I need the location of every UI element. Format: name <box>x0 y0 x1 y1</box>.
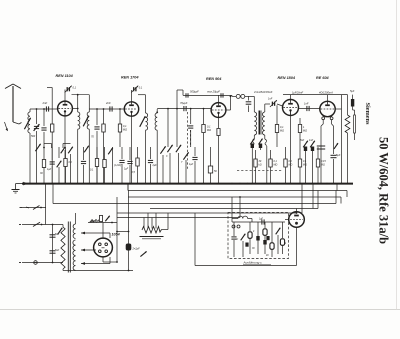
AF xfmr primary tail <box>252 139 254 184</box>
tube V3 REN 904 <box>211 103 226 118</box>
V2 cathode <box>131 116 133 183</box>
mains wire top <box>19 224 63 226</box>
feed x45 down <box>45 184 47 225</box>
IF1 secondary coil <box>87 95 89 184</box>
label Ausfuehrung c <box>243 261 272 265</box>
resistor R5 <box>275 105 284 147</box>
choke top wire <box>347 95 349 115</box>
pot P1 <box>35 144 70 161</box>
tuning cap C2 <box>31 109 39 184</box>
resistor R11 <box>103 147 106 184</box>
V4 top wire <box>283 95 348 100</box>
svg-text:1μF: 1μF <box>47 168 52 171</box>
resistor R17 <box>316 147 326 184</box>
grid wire stage3 <box>157 108 211 110</box>
coupling cap C9 <box>299 102 320 112</box>
power transformer sec 2 <box>73 240 76 256</box>
AF transformer secondary <box>262 112 264 139</box>
IF1 primary coil <box>78 112 80 184</box>
svg-text:1μF: 1μF <box>189 163 194 166</box>
cap C16 1uF <box>189 147 198 184</box>
V6 anode wires <box>103 257 118 263</box>
pot P9 <box>58 228 63 235</box>
resistor R10 <box>90 147 99 184</box>
svg-text:1nF: 1nF <box>304 102 309 106</box>
sec tap arrow 2 <box>81 249 96 252</box>
capacitor C6 <box>180 101 188 111</box>
svg-text:1nF: 1nF <box>309 139 314 142</box>
pot P5 <box>160 146 165 183</box>
feed x195 down <box>194 213 196 266</box>
V2 grid trimmer <box>131 86 143 93</box>
resistor R6 1M <box>298 118 307 147</box>
svg-text:MΩ: MΩ <box>321 164 325 167</box>
power transformer sec 1 <box>73 213 75 238</box>
svg-text:5nF: 5nF <box>55 249 60 252</box>
svg-text:500μμF: 500μμF <box>190 90 199 94</box>
divider underline <box>140 237 164 239</box>
tube V5 RE 604 <box>320 101 335 117</box>
mech link dashed <box>237 170 282 172</box>
rail +B y197 <box>128 197 341 204</box>
svg-text:MΩ: MΩ <box>274 164 278 167</box>
sec tap arrow 3 <box>81 257 110 265</box>
grid wire stage1 <box>30 108 58 110</box>
rail +C y203.5 <box>53 184 336 204</box>
sec tap arrow 1 <box>81 232 110 238</box>
aux wire y207.5 <box>20 207 47 209</box>
pot P7 <box>176 145 181 184</box>
svg-text:500: 500 <box>31 135 36 138</box>
box pot2 <box>276 228 281 254</box>
power transformer core <box>68 222 70 273</box>
svg-text:MΩ: MΩ <box>303 164 307 167</box>
pot P3 <box>68 147 73 184</box>
caps near V5 <box>300 139 315 184</box>
tube V1 REN 1104 <box>58 101 73 116</box>
wire stage1 gridleak <box>51 88 54 184</box>
heater components <box>90 216 113 224</box>
label REN 1804 <box>278 76 296 80</box>
svg-text:5μF: 5μF <box>350 90 355 93</box>
label above V4 <box>292 90 303 94</box>
svg-text:max.20μμF: max.20μμF <box>207 90 220 94</box>
divider resistor <box>142 227 162 234</box>
IF1 tuning arrow <box>83 116 89 127</box>
box elec2 <box>263 222 267 254</box>
box elec1 <box>248 222 255 254</box>
grid leak dark <box>350 90 355 110</box>
svg-text:MΩ: MΩ <box>289 164 293 167</box>
resistor R12 <box>132 147 140 184</box>
box coil <box>232 216 252 222</box>
title Siemens <box>364 103 371 125</box>
node g <box>176 96 178 147</box>
misc feed verticals <box>232 184 337 219</box>
svg-text:REN 1804: REN 1804 <box>278 76 296 80</box>
ground symbol <box>12 182 28 193</box>
svg-text:1μF: 1μF <box>124 168 129 171</box>
coil L1 tuning arrow <box>24 118 30 129</box>
wire x112 <box>108 147 113 184</box>
antenna earth arrow <box>5 122 8 131</box>
capacitor C5 70pF <box>91 109 100 184</box>
dashed option box <box>228 213 289 259</box>
capacitor C3 <box>41 109 46 147</box>
cap C19 5nF <box>50 249 60 253</box>
svg-text:REN 1704: REN 1704 <box>121 76 139 80</box>
pot P2 <box>57 147 62 184</box>
resistor R9 <box>64 147 73 184</box>
cap C11 <box>47 147 55 184</box>
svg-text:kΩ: kΩ <box>259 164 262 167</box>
node h <box>190 108 192 110</box>
svg-text:2μF: 2μF <box>152 164 158 167</box>
bottom wire to speaker <box>195 265 297 267</box>
svg-text:MΩ: MΩ <box>280 130 284 133</box>
svg-text:REN 1104: REN 1104 <box>56 74 74 78</box>
label max 20μμF <box>207 90 220 94</box>
osc coil circles <box>232 94 249 98</box>
cap C13 <box>113 147 125 184</box>
node d <box>103 108 105 110</box>
speaker jack <box>285 212 304 228</box>
title 50 W/604, Rfe 31a/b <box>377 137 391 244</box>
box bottom stub <box>234 254 272 257</box>
cap C17 <box>208 147 217 184</box>
box cap2 <box>252 222 260 254</box>
V1 anode trimmer <box>65 86 77 93</box>
label 500μμF <box>190 90 199 94</box>
pot P4 <box>84 146 89 153</box>
HT feed x117 <box>116 197 118 262</box>
cap C10 5uF <box>331 150 341 184</box>
cap C18 5nF <box>50 233 60 237</box>
label REN 1704 <box>121 76 139 80</box>
ground bus <box>22 183 353 185</box>
IF2 secondary coil <box>155 109 157 184</box>
svg-text:0,1: 0,1 <box>139 87 143 90</box>
svg-text:REN 904: REN 904 <box>206 77 222 81</box>
resistor R8 <box>40 160 46 184</box>
svg-text:MΩ: MΩ <box>303 130 307 133</box>
transformer bottom wire <box>63 270 133 272</box>
cap C12 <box>81 147 86 184</box>
speaker drop <box>296 227 298 266</box>
label 4x val <box>254 90 273 94</box>
label RE 604 <box>316 76 330 80</box>
anode V1 wire <box>72 108 78 110</box>
svg-text:Siemens: Siemens <box>364 103 371 125</box>
divider top taps <box>144 213 156 229</box>
pot P8 <box>181 152 189 183</box>
svg-text:Ausführung c: Ausführung c <box>243 261 263 265</box>
capacitor C8 shunt <box>246 96 252 112</box>
divider right wire <box>162 213 169 230</box>
mech link dashed vert <box>188 112 191 171</box>
svg-text:MΩ: MΩ <box>123 129 127 132</box>
svg-text:1μF/2bnF: 1μF/2bnF <box>292 90 303 94</box>
anode V3 wire <box>226 96 232 111</box>
tuning coil L1 <box>28 109 30 184</box>
svg-text:2nF: 2nF <box>105 101 111 105</box>
node e <box>156 111 158 113</box>
svg-text:[1,2nF]: [1,2nF] <box>113 165 122 167</box>
HT vertical x341.5 <box>341 95 343 184</box>
box cap3 <box>259 219 264 225</box>
V4 grid trimmer <box>268 98 283 108</box>
resistor R16 <box>298 147 307 184</box>
AF xfmr secondary tail <box>265 139 267 184</box>
V2 grid cap wire <box>119 90 145 113</box>
page right margin line <box>396 0 398 310</box>
V5 cathode drop <box>317 126 334 184</box>
svg-text:1054: 1054 <box>112 233 120 237</box>
caps at AF tails <box>250 139 262 150</box>
V1 grid cap wire <box>47 88 89 113</box>
power transformer sec 3 <box>73 256 75 270</box>
rect tube heater wire <box>88 223 117 239</box>
svg-text:2nF: 2nF <box>42 101 48 105</box>
capacitor C7 <box>188 109 193 147</box>
feed x128 down <box>127 184 129 191</box>
svg-text:4×1/2fbnF±fbnF: 4×1/2fbnF±fbnF <box>254 90 273 94</box>
V4 cathode <box>290 116 292 184</box>
resistor R3 box <box>118 109 127 147</box>
node b <box>43 108 45 110</box>
IF2 tuning arrow <box>140 116 146 127</box>
rail +D y208.5 <box>150 191 318 209</box>
mains fuse <box>34 261 38 265</box>
resistor R15 <box>284 147 293 184</box>
V1 cathode <box>61 116 66 184</box>
stage3 top caps <box>186 93 223 97</box>
box cap1 <box>231 222 238 254</box>
V5 anode wire <box>335 108 341 110</box>
resistor R4 0.1M <box>202 109 211 184</box>
svg-text:5μF: 5μF <box>336 154 341 157</box>
cap C14 1uF <box>124 147 133 184</box>
cap C15 2uF <box>148 147 157 184</box>
resistor R2 <box>102 109 105 184</box>
rail +E y213 <box>117 212 297 214</box>
resistor R14 <box>269 150 278 184</box>
filter cap branch x128.5 <box>116 191 129 272</box>
svg-text:4Ω/1200mA: 4Ω/1200mA <box>319 90 333 94</box>
box top wire <box>232 221 285 223</box>
resistor R13 <box>254 150 262 184</box>
AF transformer core <box>259 111 261 135</box>
box dark bits <box>245 236 269 247</box>
bus junction dots <box>29 183 348 185</box>
svg-text:70μμF: 70μμF <box>180 101 188 105</box>
label above V5 <box>319 90 333 94</box>
box terminal <box>232 225 240 228</box>
svg-text:1nF: 1nF <box>268 98 273 101</box>
AF xfmr sec top wire <box>265 104 270 112</box>
aux switch <box>26 206 42 210</box>
capacitor C4 2nF <box>105 101 112 111</box>
tube V4 REN 1804 <box>283 100 299 116</box>
pot P6 <box>166 145 173 184</box>
speaker feed top <box>296 209 298 212</box>
rail +F y217.5 <box>117 217 240 219</box>
svg-text:50 W/604, Rfe 31a/b: 50 W/604, Rfe 31a/b <box>377 137 391 244</box>
rail +A y190.5 <box>128 184 347 197</box>
cap C20 2x2uF <box>126 244 140 251</box>
V3 grid top wire <box>183 95 232 102</box>
node i <box>203 108 205 110</box>
svg-text:RE 604: RE 604 <box>316 76 330 80</box>
heater resistor <box>91 220 99 223</box>
box elec4 <box>280 222 287 254</box>
label 1054 <box>112 233 120 237</box>
antenna <box>5 84 22 124</box>
capacitor C1 2nF <box>42 101 49 111</box>
mains switch top <box>33 222 42 226</box>
svg-text:0,1: 0,1 <box>73 87 77 90</box>
label REN 904 <box>206 77 222 81</box>
svg-text:MΩ: MΩ <box>207 129 211 132</box>
label REN 1104 <box>56 74 74 78</box>
V5 grid top wire <box>327 95 329 102</box>
page lower margin line <box>0 309 400 311</box>
resistor R7 thin <box>353 110 356 140</box>
AF transformer primary <box>254 112 256 139</box>
wire top stage1 <box>77 94 79 96</box>
svg-text:5nF: 5nF <box>300 139 305 142</box>
divider pointer <box>140 251 146 256</box>
V3 cathode resistor <box>217 117 220 183</box>
svg-text:1μF: 1μF <box>259 219 264 221</box>
V5 filament loops <box>321 117 334 126</box>
power transformer primary <box>61 225 65 271</box>
box pot1 <box>241 234 246 254</box>
box elec3 <box>266 222 274 257</box>
node f <box>167 108 169 147</box>
svg-text:2×2μF: 2×2μF <box>132 248 141 251</box>
node a <box>36 108 38 110</box>
tube V6 RGN 1054 <box>94 238 113 257</box>
wire to AF transformer <box>249 96 255 112</box>
output choke <box>345 115 350 184</box>
pot arrow near C10 <box>334 143 338 149</box>
tube V2 REN 1704 <box>124 102 138 116</box>
mains cap branch <box>52 224 54 264</box>
node c <box>96 108 98 110</box>
IF2 primary coil <box>146 113 148 184</box>
stage3 top left drop <box>177 90 183 96</box>
mains wire bottom <box>19 262 63 264</box>
grid wire stage2 <box>89 108 124 110</box>
